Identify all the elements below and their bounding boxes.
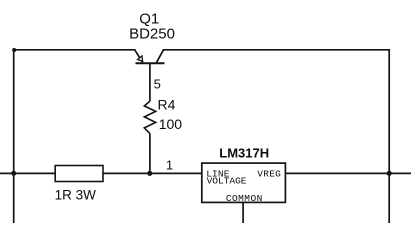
svg-text:5: 5 [154,77,161,92]
op-amp U1 LM317H box [202,163,286,202]
node junction top left [12,48,16,52]
wire bottom right segment [285,172,411,174]
svg-text:COMMON: COMMON [226,193,263,204]
node junction left rail bottom [11,171,16,176]
wire top left segment [14,49,135,51]
wire bottom middle segment [103,172,202,174]
wire R4 to node [149,133,151,173]
transistor Q1 [135,50,165,102]
wire bottom left segment [0,172,55,174]
svg-text:VREG: VREG [257,168,281,179]
wire right rail [388,50,390,223]
svg-text:1: 1 [166,158,173,173]
wire top right segment [164,49,390,51]
svg-text:BD250: BD250 [129,26,175,43]
svg-text:R4: R4 [158,96,176,112]
svg-text:1R 3W: 1R 3W [55,188,97,203]
resistor 1R 3W [55,166,103,182]
node junction right rail bottom [387,171,392,176]
svg-text:100: 100 [159,116,183,132]
wire left rail [13,50,15,223]
node 1 junction R4 bottom [147,171,152,176]
svg-text:LM317H: LM317H [219,145,269,160]
wire common lead [242,202,244,223]
svg-text:VOLTAGE: VOLTAGE [207,176,247,187]
resistor R4 [144,101,155,133]
